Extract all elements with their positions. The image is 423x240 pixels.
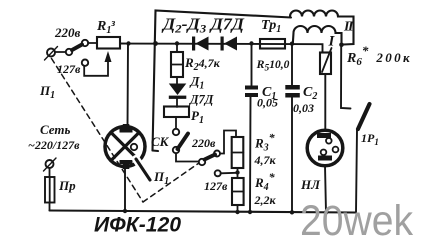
wire fuse to bottom bus	[49, 203, 51, 211]
unit box border (top + left)	[153, 11, 292, 152]
fuse Pr	[45, 177, 55, 203]
relay contact 1P1 arm	[358, 104, 370, 129]
wire main top bus	[120, 44, 323, 53]
diode D3	[221, 37, 238, 51]
svg-text:R510,0: R510,0	[256, 57, 290, 74]
diode D2	[192, 37, 209, 51]
terminal X2 (mains, bottom left)	[44, 158, 57, 171]
terminal X1 (mains phase, top left)	[45, 47, 58, 61]
node R4 bottom	[235, 210, 239, 214]
node NL bottom	[324, 210, 328, 214]
svg-text:НЛ: НЛ	[300, 177, 321, 192]
svg-text:127в: 127в	[57, 62, 81, 76]
svg-text:Пр: Пр	[58, 178, 76, 193]
wire SK to P1 pole 2	[176, 153, 199, 161]
svg-text:R6*200к: R6*200к	[346, 43, 412, 68]
svg-text:R4*: R4*	[254, 170, 276, 193]
resistor R2	[171, 44, 183, 78]
capacitor C2	[285, 44, 300, 213]
wire bottom bus	[50, 211, 357, 213]
wire terminal to switch P1 pole1	[56, 51, 66, 53]
resistor R4	[232, 173, 244, 212]
wire 127v contact to R3/R4 node	[221, 172, 236, 175]
resistor R5	[260, 39, 285, 49]
svg-text:2,2к: 2,2к	[254, 193, 277, 207]
svg-text:0,03: 0,03	[293, 101, 314, 115]
wire 220v contact to R3 top	[220, 131, 236, 154]
svg-text:4,7к: 4,7к	[254, 153, 277, 167]
svg-text:Сеть: Сеть	[40, 122, 70, 137]
transformer Tr1 winding II	[290, 11, 354, 45]
svg-text:Р1: Р1	[191, 108, 204, 126]
wire NL bottom lead	[325, 166, 326, 213]
arrow wiper of R1	[105, 51, 112, 62]
transformer Tr1 winding I	[293, 26, 342, 45]
svg-text:Д2-Д3 Д7Д: Д2-Д3 Д7Д	[161, 15, 245, 36]
svg-text:~220/127в: ~220/127в	[28, 138, 80, 152]
node C1 bottom	[248, 210, 252, 214]
svg-text:0,05: 0,05	[257, 96, 278, 110]
node R3/R4 junction	[235, 170, 239, 174]
wire P1 to R1	[88, 42, 97, 44]
resistor R1	[97, 37, 120, 49]
wire 1P1 to bottom bus	[356, 130, 357, 213]
node C1 top	[249, 41, 253, 45]
node lamp bottom	[123, 209, 127, 213]
svg-text:П1: П1	[39, 83, 55, 101]
varistor R6 (box with diagonal)	[320, 48, 332, 131]
trigger electrode lead of lamp	[136, 159, 150, 180]
node main bus / border crossing	[153, 41, 158, 46]
lamp IFK-120	[105, 124, 145, 169]
svg-text:R24,7к: R24,7к	[184, 55, 221, 73]
resistor R3	[232, 137, 244, 173]
dashed mechanical link of P1	[52, 59, 144, 203]
svg-text:20wek: 20wek	[300, 198, 414, 240]
wire to relay contact 1P1	[341, 45, 351, 109]
diode D1	[169, 77, 187, 99]
svg-text:R1з: R1з	[96, 18, 115, 36]
node C2 top	[290, 42, 294, 46]
dashed mechanical link of P1 (second leg)	[143, 163, 199, 202]
wire lamp top lead	[127, 44, 130, 130]
node transformer right	[339, 43, 344, 48]
wire lamp bottom lead	[124, 167, 126, 212]
switch P1 pole 2	[199, 151, 220, 166]
contact 127v terminal	[82, 60, 88, 66]
svg-text:127в: 127в	[204, 179, 228, 193]
svg-text:Д1: Д1	[190, 74, 205, 92]
node C2 bottom	[290, 210, 294, 214]
node at lamp top lead	[126, 41, 130, 45]
wire 127v tap to R1 wiper	[84, 62, 108, 76]
svg-text:220в: 220в	[191, 136, 216, 150]
svg-text:220в: 220в	[54, 25, 81, 40]
svg-text:ИФК-120: ИФК-120	[94, 214, 181, 237]
relay coil P1	[164, 99, 189, 117]
node R2 top	[175, 41, 179, 45]
svg-text:R3*: R3*	[254, 131, 276, 154]
svg-text:П1: П1	[153, 169, 169, 187]
svg-text:Тр1: Тр1	[261, 18, 281, 35]
svg-text:Д7Д: Д7Д	[189, 93, 214, 107]
svg-text:СК: СК	[151, 134, 170, 149]
contact SK	[173, 117, 188, 153]
neon lamp NL	[307, 130, 343, 166]
svg-text:1Р1: 1Р1	[361, 131, 379, 147]
svg-text:II: II	[343, 20, 354, 35]
switch P1 pole 1 (220v arm)	[66, 40, 88, 55]
wire terminal to fuse	[49, 168, 51, 177]
contact 127v (pole 2)	[215, 170, 221, 176]
svg-text:C2: C2	[303, 85, 317, 102]
capacitor C1	[245, 44, 258, 213]
